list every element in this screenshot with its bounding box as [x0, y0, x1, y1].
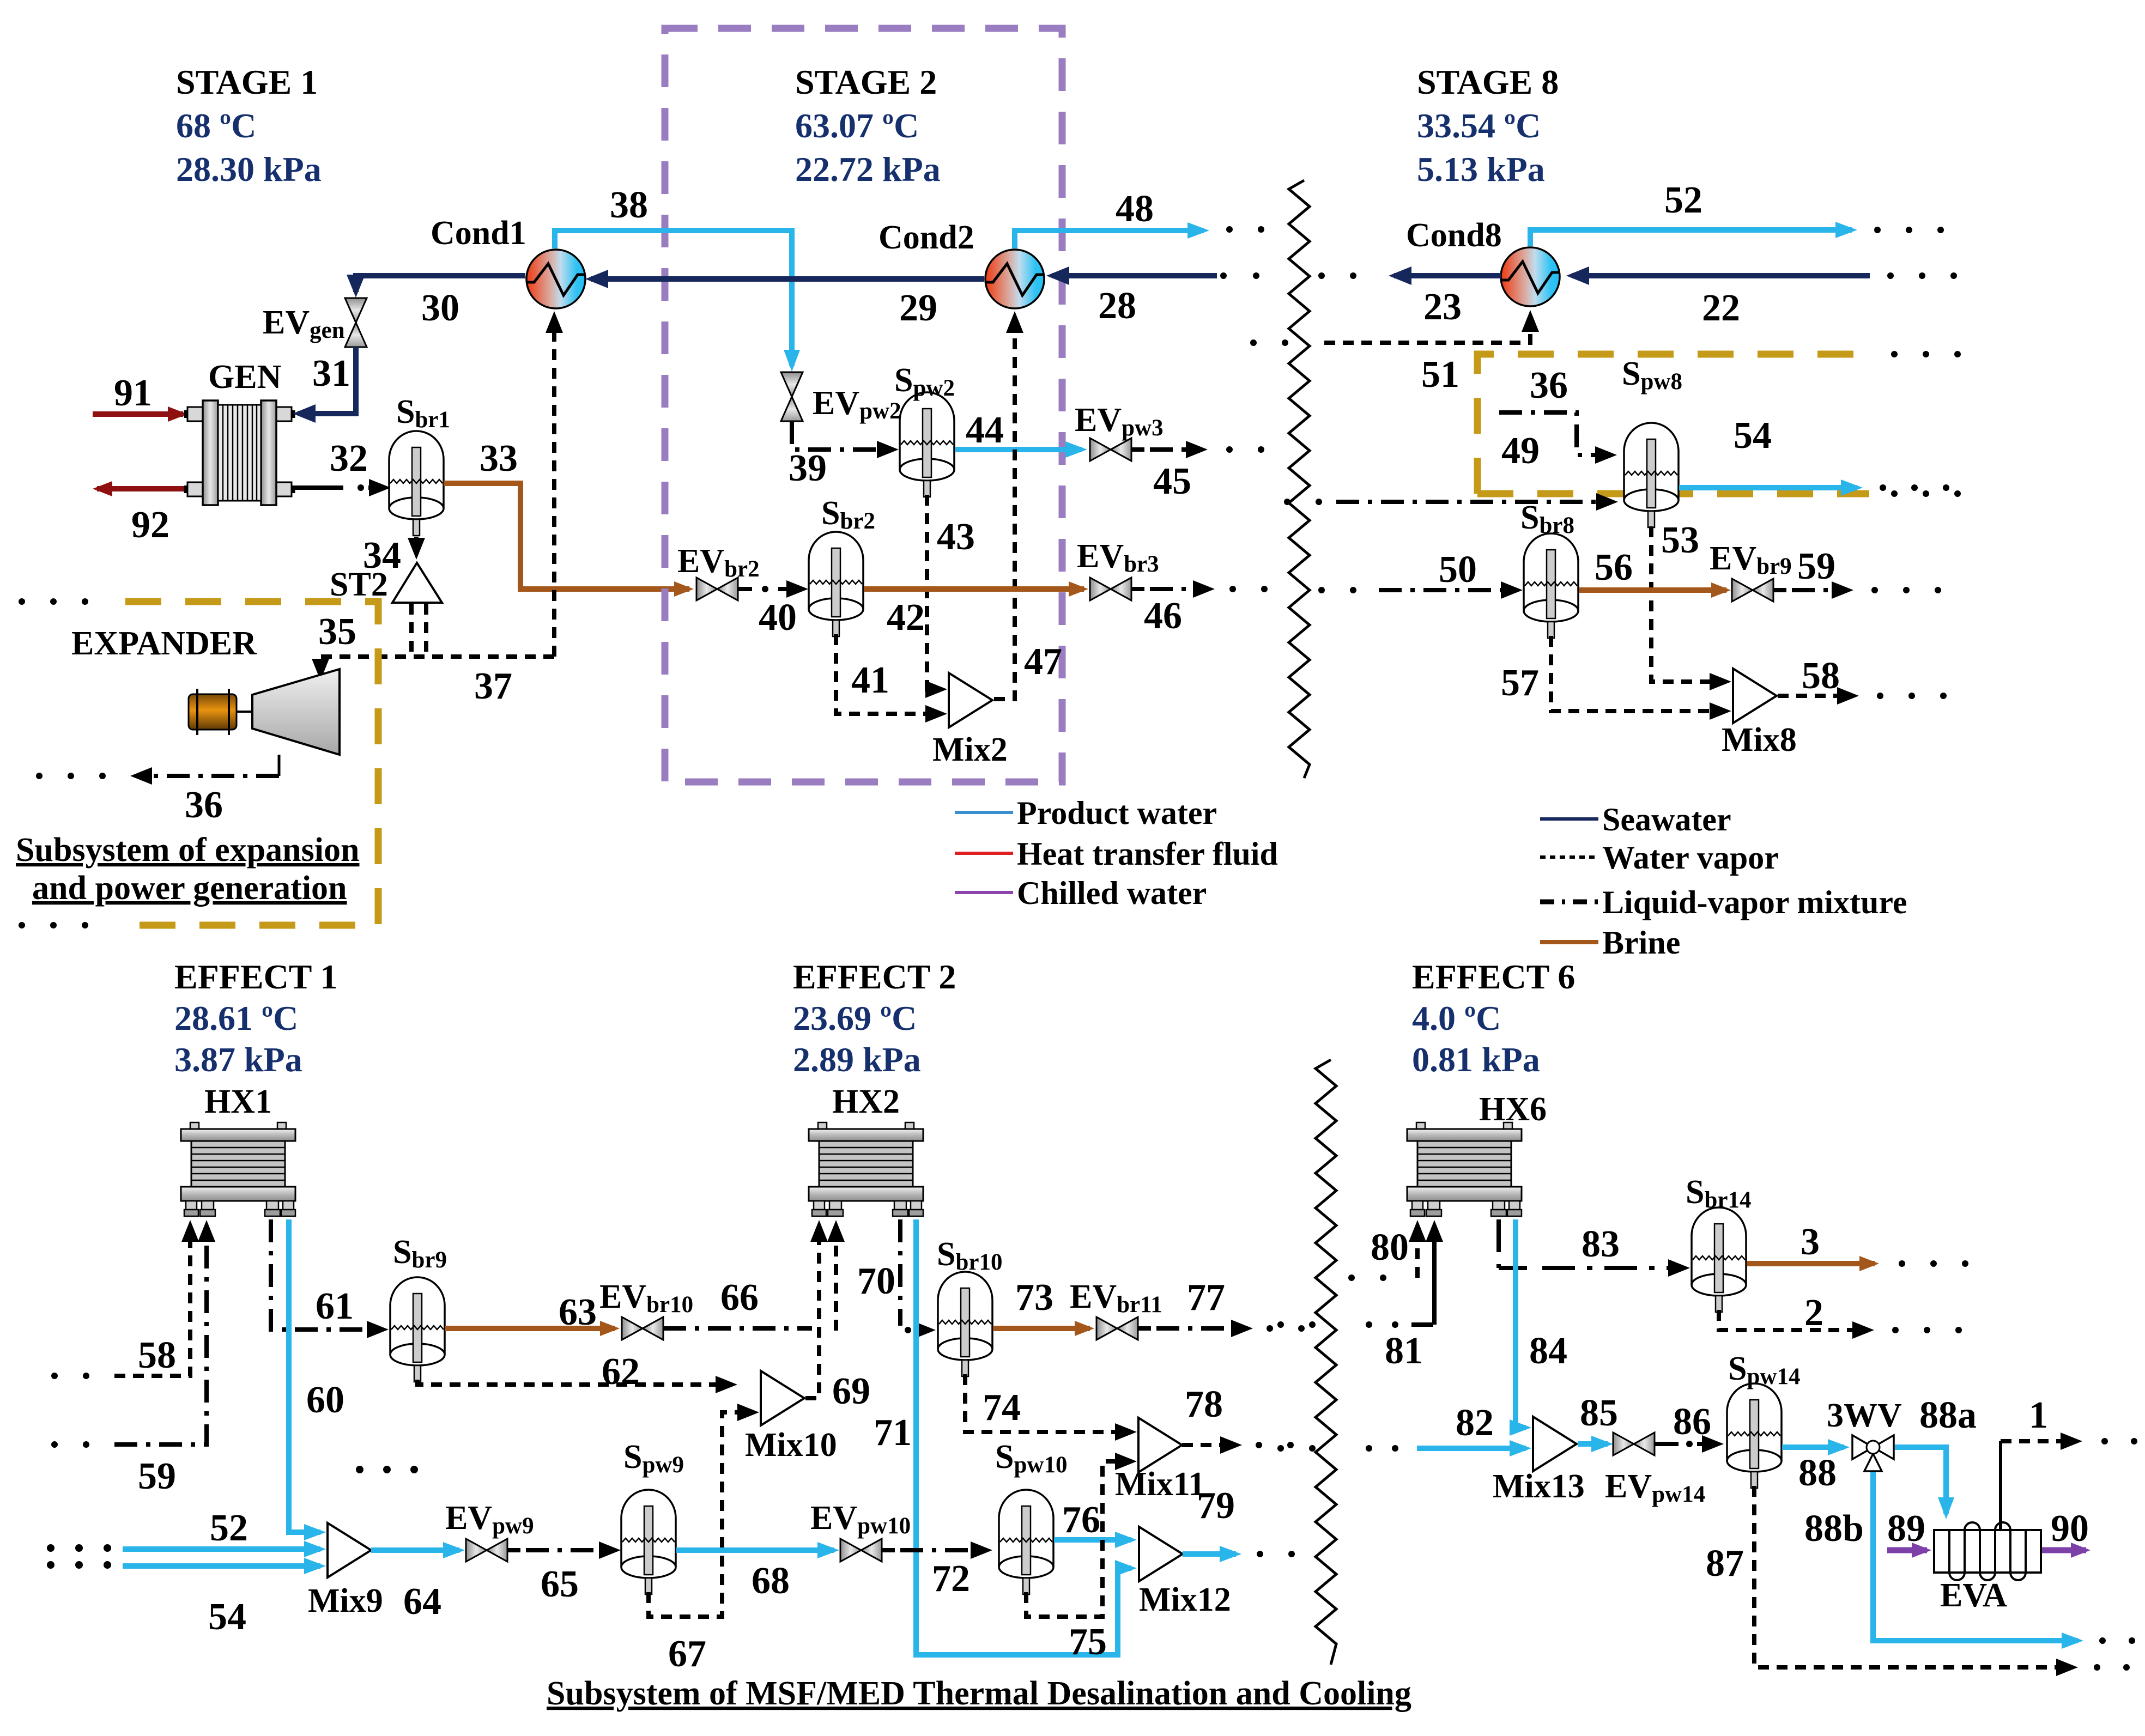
- generator GEN: [185, 359, 294, 505]
- svg-text:71: 71: [874, 1412, 912, 1454]
- wire 50 to Sbr8: [1318, 549, 1517, 593]
- svg-text:3: 3: [1801, 1221, 1820, 1263]
- subsystem box right part (gold): [1477, 351, 1961, 497]
- svg-text:Mix10: Mix10: [745, 1427, 837, 1464]
- svg-text:43: 43: [937, 516, 975, 558]
- svg-text:Chilled water: Chilled water: [1017, 875, 1207, 911]
- wire 72 EVpw10 to Spw10: [882, 1550, 986, 1600]
- heat exchanger HX1: [181, 1083, 295, 1216]
- legend liquid-vapor mixture: [1540, 884, 1907, 920]
- break line top (zigzag): [1289, 180, 1310, 778]
- wire 63 brine Sbr9 to EVbr10: [445, 1291, 615, 1333]
- wire 85 Mix13 to EVpw14: [1578, 1392, 1618, 1444]
- svg-text:54: 54: [208, 1596, 246, 1638]
- wire 53 vapor Spw8 to Mix8: [1651, 519, 1725, 682]
- evaporator EVA: [1934, 1522, 2041, 1614]
- wire 37 vapor to Cond1: [474, 317, 554, 707]
- svg-text:Mix8: Mix8: [1722, 721, 1797, 758]
- steam turbine ST2: [330, 563, 442, 603]
- condenser Cond1: [431, 215, 585, 308]
- separator Spw8: [1622, 355, 1682, 527]
- svg-text:86: 86: [1673, 1401, 1711, 1443]
- expansion valve EVbr2: [677, 543, 760, 600]
- condenser Cond8: [1406, 217, 1560, 306]
- wire 34 vapor Sbr1 to ST2: [363, 535, 416, 576]
- expansion valve EVpw10: [810, 1500, 911, 1562]
- svg-text:62: 62: [602, 1351, 640, 1393]
- wire 54 product water Spw8 out: [1679, 415, 1949, 491]
- wire 68 product water Spw9 to EVpw10: [676, 1550, 834, 1602]
- svg-text:HX2: HX2: [832, 1083, 900, 1120]
- wire 36 expander out: [36, 773, 279, 826]
- svg-text:5.13 kPa: 5.13 kPa: [1417, 150, 1545, 189]
- separator Sbr1: [389, 393, 450, 536]
- wire 36b to Spw8: [1499, 365, 1611, 455]
- wire 2 vapor Sbr14 out: [1719, 1292, 1962, 1334]
- svg-text:76: 76: [1062, 1499, 1100, 1541]
- expander EXPANDER: [71, 625, 340, 776]
- svg-text:63: 63: [559, 1291, 597, 1333]
- legend water vapor: [1540, 840, 1779, 876]
- svg-text:81: 81: [1385, 1330, 1423, 1372]
- svg-text:48: 48: [1116, 188, 1154, 230]
- svg-text:51: 51: [1421, 354, 1459, 396]
- wire 87 vapor Spw14 out: [1706, 1486, 2130, 1671]
- svg-text:39: 39: [789, 447, 827, 489]
- svg-text:67: 67: [668, 1633, 706, 1675]
- legend seawater: [1540, 802, 1731, 837]
- svg-text:53: 53: [1661, 519, 1699, 561]
- wire 76 product water Spw10 to Mix12: [1054, 1499, 1131, 1541]
- wire 51 vapor to Cond8: [1250, 316, 1530, 396]
- svg-text:0.81 kPa: 0.81 kPa: [1412, 1040, 1540, 1079]
- wire 52 product water Cond8 out: [1530, 179, 1944, 246]
- wire 82 product water into Mix13: [1277, 1402, 1526, 1452]
- expansion valve EVbr9: [1710, 540, 1792, 602]
- wire 62 vapor Sbr9 to Mix10: [417, 1351, 731, 1393]
- svg-text:Cond1: Cond1: [431, 215, 526, 252]
- wire 38 product water Cond1 to EVpw2: [555, 184, 792, 366]
- wire 47 Mix2 to Cond2: [994, 317, 1062, 699]
- mixer Mix12: [1139, 1527, 1231, 1618]
- wire 42 brine Sbr2 to EVbr3: [864, 589, 1084, 639]
- wire 58 Mix8 out: [1778, 655, 1947, 699]
- separator Spw14: [1727, 1350, 1800, 1488]
- mixer Mix2: [932, 673, 1008, 768]
- wire 73 brine Sbr10 to EVbr11: [993, 1277, 1090, 1328]
- svg-text:Cond8: Cond8: [1406, 217, 1502, 254]
- svg-text:44: 44: [966, 409, 1004, 451]
- mixer Mix10: [745, 1371, 837, 1464]
- wire 88 Spw14 to 3WV: [1782, 1447, 1844, 1494]
- svg-text:and power generation: and power generation: [32, 870, 347, 907]
- wire 79 Mix12 out: [1183, 1485, 1295, 1557]
- mixer Mix8: [1722, 669, 1797, 758]
- svg-text:58: 58: [1802, 655, 1840, 697]
- svg-text:49: 49: [1501, 430, 1540, 472]
- wire 59b mixture into HX1: [51, 1226, 207, 1497]
- svg-text:41: 41: [851, 659, 889, 701]
- legend chilled water: [955, 875, 1207, 911]
- svg-text:EFFECT 6: EFFECT 6: [1412, 957, 1575, 996]
- heat exchanger HX6: [1407, 1091, 1547, 1216]
- wire 78 Mix11 out: [1182, 1383, 1294, 1448]
- svg-text:73: 73: [1015, 1277, 1053, 1319]
- wire 56 brine Sbr8 to EVbr9: [1579, 547, 1726, 590]
- wire 1 vapor EVA out: [2001, 1394, 2137, 1529]
- svg-text:33.54 ºC: 33.54 ºC: [1417, 106, 1541, 145]
- svg-text:66: 66: [720, 1277, 759, 1319]
- svg-text:42: 42: [887, 597, 925, 639]
- svg-text:HX1: HX1: [204, 1083, 272, 1120]
- expansion valve EVgen: [263, 298, 367, 347]
- wire 65 EVpw9 to Spw9: [507, 1550, 615, 1605]
- wire 48 product water out: [1015, 188, 1264, 248]
- svg-text:3.87 kPa: 3.87 kPa: [174, 1040, 302, 1079]
- wire 90 chilled water out: [2042, 1508, 2089, 1550]
- legend heat transfer fluid: [955, 836, 1278, 872]
- svg-text:28.61 ºC: 28.61 ºC: [174, 999, 298, 1037]
- separator Sbr9: [390, 1234, 447, 1382]
- wire 59 EVbr9 out: [1773, 545, 1941, 593]
- wire 64 Mix9 to EVpw9: [371, 1550, 459, 1623]
- svg-text:88a: 88a: [1919, 1394, 1977, 1436]
- svg-text:33: 33: [480, 438, 518, 479]
- svg-text:38: 38: [610, 184, 648, 226]
- svg-text:68 ºC: 68 ºC: [176, 106, 256, 145]
- svg-text:90: 90: [2051, 1508, 2089, 1550]
- svg-text:Subsystem of expansion: Subsystem of expansion: [16, 831, 359, 869]
- svg-text:Mix2: Mix2: [932, 731, 1008, 768]
- svg-text:72: 72: [932, 1558, 970, 1600]
- wire 88b 3WV bypass: [1804, 1472, 2135, 1644]
- wire 46 EVbr3 out: [1131, 586, 1268, 637]
- svg-text:ST2: ST2: [330, 566, 388, 603]
- svg-text:83: 83: [1582, 1223, 1620, 1265]
- svg-text:77: 77: [1187, 1277, 1225, 1319]
- svg-text:EFFECT 1: EFFECT 1: [174, 957, 337, 996]
- mixer Mix13: [1493, 1417, 1585, 1505]
- svg-text:Subsystem of MSF/MED Thermal D: Subsystem of MSF/MED Thermal Desalinatio…: [547, 1675, 1411, 1712]
- wire 58b vapor into HX1: [51, 1226, 190, 1379]
- wire 75 vapor Spw10 to Mix11: [1026, 1461, 1131, 1663]
- svg-text:59: 59: [138, 1455, 176, 1497]
- wire 88a 3WV to EVA: [1895, 1394, 1977, 1514]
- svg-text:1: 1: [2029, 1394, 2048, 1436]
- separator Sbr8: [1520, 499, 1578, 638]
- wire 29 seawater Cond2 to Cond1: [591, 279, 984, 329]
- svg-text:EFFECT 2: EFFECT 2: [793, 957, 956, 996]
- svg-text:89: 89: [1887, 1508, 1925, 1550]
- separator Sbr14: [1686, 1174, 1751, 1312]
- legend brine: [1540, 925, 1680, 961]
- expansion valve EVbr11: [1070, 1278, 1162, 1340]
- svg-text:68: 68: [752, 1560, 790, 1602]
- svg-text:22.72 kPa: 22.72 kPa: [795, 150, 941, 189]
- wire 57 vapor Sbr8 to Mix8: [1501, 636, 1725, 711]
- svg-text:87: 87: [1706, 1543, 1744, 1585]
- svg-text:65: 65: [541, 1563, 579, 1605]
- svg-text:35: 35: [318, 611, 356, 653]
- wire 60 product water HX1 to Mix9: [289, 1219, 344, 1532]
- svg-text:28.30 kPa: 28.30 kPa: [176, 150, 322, 189]
- wire 77 EVbr11 out: [1138, 1277, 1305, 1332]
- svg-text:STAGE 8: STAGE 8: [1417, 63, 1559, 101]
- wire 35 ST2 exhaust to expander: [318, 604, 554, 675]
- wire 28 seawater from right: [1052, 272, 1259, 327]
- svg-text:92: 92: [131, 504, 169, 546]
- svg-text:EXPANDER: EXPANDER: [71, 625, 257, 662]
- wire 41 vapor Sbr2 to Mix2: [836, 634, 941, 714]
- svg-text:Mix11: Mix11: [1115, 1466, 1205, 1503]
- svg-text:64: 64: [403, 1581, 441, 1623]
- mixer Mix9: [308, 1523, 383, 1619]
- svg-text:80: 80: [1371, 1227, 1409, 1268]
- svg-text:23: 23: [1423, 286, 1462, 328]
- svg-text:36: 36: [1530, 365, 1568, 406]
- wire 23 seawater out left: [1318, 272, 1501, 328]
- svg-text:2: 2: [1804, 1292, 1823, 1334]
- svg-text:69: 69: [832, 1370, 870, 1412]
- svg-text:84: 84: [1529, 1330, 1567, 1372]
- svg-text:75: 75: [1069, 1621, 1107, 1663]
- svg-text:2.89 kPa: 2.89 kPa: [793, 1040, 921, 1079]
- svg-text:88: 88: [1798, 1452, 1837, 1494]
- subsystem expansion caption: [16, 831, 359, 907]
- svg-text:GEN: GEN: [208, 359, 281, 396]
- condenser Cond2: [878, 219, 1044, 308]
- svg-text:Mix13: Mix13: [1493, 1468, 1585, 1505]
- wire 22 seawater in from right: [1572, 272, 1957, 329]
- svg-text:3WV: 3WV: [1827, 1397, 1902, 1434]
- svg-text:30: 30: [421, 287, 459, 329]
- svg-text:70: 70: [857, 1260, 895, 1302]
- svg-text:82: 82: [1456, 1402, 1494, 1444]
- expansion valve EVbr3: [1077, 538, 1159, 600]
- wire 54b product water into Mix9: [47, 1561, 320, 1638]
- svg-text:4.0 ºC: 4.0 ºC: [1412, 999, 1501, 1037]
- wire 84 product water HX6 to Mix13: [1516, 1219, 1567, 1428]
- wire 81 mixture into HX6: [1277, 1226, 1434, 1372]
- svg-text:Mix9: Mix9: [308, 1582, 383, 1619]
- wire 52b product water into Mix9: [47, 1507, 320, 1552]
- wire 71 product water HX2 to Mix12: [874, 1219, 1131, 1655]
- separator Sbr2: [809, 495, 875, 636]
- wire 61 HX1 to Sbr9: [271, 1219, 383, 1330]
- svg-text:40: 40: [759, 597, 797, 639]
- svg-text:56: 56: [1595, 547, 1633, 588]
- svg-text:EVA: EVA: [1940, 1577, 2007, 1614]
- wire 80 vapor into HX6: [1348, 1226, 1417, 1281]
- svg-text:74: 74: [983, 1387, 1021, 1429]
- wire 45 EVpw3 out: [1131, 446, 1264, 502]
- svg-text:50: 50: [1439, 549, 1477, 591]
- break line bottom (zigzag): [1316, 1060, 1336, 1665]
- svg-text:Seawater: Seawater: [1602, 802, 1731, 837]
- wire 66 EVbr10 to HX2 area: [663, 1277, 812, 1328]
- svg-text:46: 46: [1144, 595, 1182, 637]
- expansion valve EVpw2: [781, 372, 901, 424]
- svg-text:STAGE 2: STAGE 2: [795, 63, 937, 101]
- wire 70 HX2 to Sbr10: [857, 1219, 930, 1333]
- separator Spw2: [894, 362, 955, 497]
- svg-text:78: 78: [1185, 1383, 1223, 1425]
- subsystem expansion box (gold): [19, 598, 378, 928]
- svg-text:45: 45: [1153, 460, 1191, 502]
- svg-text:54: 54: [1734, 415, 1772, 457]
- svg-text:Liquid-vapor mixture: Liquid-vapor mixture: [1602, 884, 1907, 920]
- wire 69b second vapor riser into HX2: [834, 1226, 838, 1331]
- svg-text:32: 32: [330, 438, 368, 479]
- separator Sbr10: [937, 1236, 1002, 1376]
- wire 69 Mix10 to HX2: [805, 1226, 870, 1412]
- svg-text:88b: 88b: [1804, 1508, 1864, 1550]
- wire 74 vapor Sbr10 to Mix11: [965, 1374, 1131, 1432]
- wire 92 heat transfer fluid out: [97, 489, 290, 546]
- wire 43 vapor Spw2 to Mix2: [927, 495, 975, 689]
- wire 49 to Spw8: [1284, 430, 1612, 505]
- svg-text:36: 36: [185, 784, 223, 826]
- wire 31 to GEN: [298, 347, 356, 414]
- svg-text:28: 28: [1098, 285, 1136, 327]
- wire 67 vapor Spw9 to Mix10: [649, 1412, 753, 1675]
- expansion valve EVpw3: [1075, 402, 1164, 461]
- ellipsis between separators: [356, 1466, 418, 1473]
- wire 30 seawater to EVgen: [356, 276, 525, 329]
- wire 39 EVpw2 to Spw2: [789, 421, 893, 489]
- svg-text:Mix12: Mix12: [1139, 1581, 1231, 1618]
- svg-text:Product water: Product water: [1017, 795, 1217, 831]
- legend product water: [955, 795, 1217, 831]
- wire 33 brine Sbr1 to EVbr2: [444, 438, 689, 589]
- svg-text:63.07 ºC: 63.07 ºC: [795, 106, 919, 145]
- expansion valve EVpw9: [445, 1500, 534, 1562]
- svg-text:91: 91: [114, 372, 152, 414]
- svg-text:Heat transfer fluid: Heat transfer fluid: [1017, 836, 1278, 872]
- svg-text:STAGE 1: STAGE 1: [176, 63, 318, 101]
- wire 89 chilled water in: [1887, 1508, 1927, 1550]
- wire 86 EVpw14 to Spw14: [1655, 1401, 1718, 1447]
- svg-text:31: 31: [312, 353, 350, 394]
- svg-text:52: 52: [1664, 179, 1702, 221]
- wire 32 GEN to Sbr1: [292, 438, 385, 491]
- expansion valve EVpw14: [1605, 1432, 1705, 1507]
- svg-text:22: 22: [1702, 287, 1740, 329]
- svg-text:23.69 ºC: 23.69 ºC: [793, 999, 917, 1037]
- wire 40 EVbr2 to Sbr2: [738, 586, 802, 639]
- mixer Mix11: [1115, 1418, 1205, 1503]
- heat exchanger HX2: [809, 1083, 923, 1216]
- svg-text:29: 29: [899, 287, 937, 329]
- wire 83 HX6 to Sbr14: [1499, 1219, 1684, 1268]
- separator Spw10: [995, 1438, 1067, 1594]
- svg-text:Brine: Brine: [1602, 925, 1680, 961]
- svg-text:Cond2: Cond2: [878, 219, 974, 256]
- svg-text:60: 60: [306, 1379, 344, 1421]
- wire 44 product water Spw2 to EVpw3: [955, 409, 1082, 451]
- svg-text:57: 57: [1501, 662, 1539, 704]
- svg-text:85: 85: [1580, 1392, 1618, 1434]
- wire 3 brine Sbr14 out: [1747, 1221, 1968, 1267]
- svg-text:Water vapor: Water vapor: [1602, 840, 1779, 876]
- svg-text:47: 47: [1024, 641, 1062, 683]
- svg-text:59: 59: [1797, 545, 1835, 587]
- wire 91 heat transfer fluid in: [93, 372, 183, 414]
- separator Spw9: [621, 1438, 684, 1594]
- svg-text:79: 79: [1197, 1485, 1235, 1527]
- expansion valve EVbr10: [599, 1278, 693, 1340]
- svg-text:37: 37: [474, 665, 512, 707]
- svg-text:58: 58: [138, 1334, 176, 1376]
- stage 2 boundary box (purple dashed): [665, 28, 1062, 782]
- svg-text:52: 52: [210, 1507, 248, 1549]
- three-way valve 3WV: [1827, 1397, 1902, 1471]
- svg-text:61: 61: [316, 1285, 354, 1327]
